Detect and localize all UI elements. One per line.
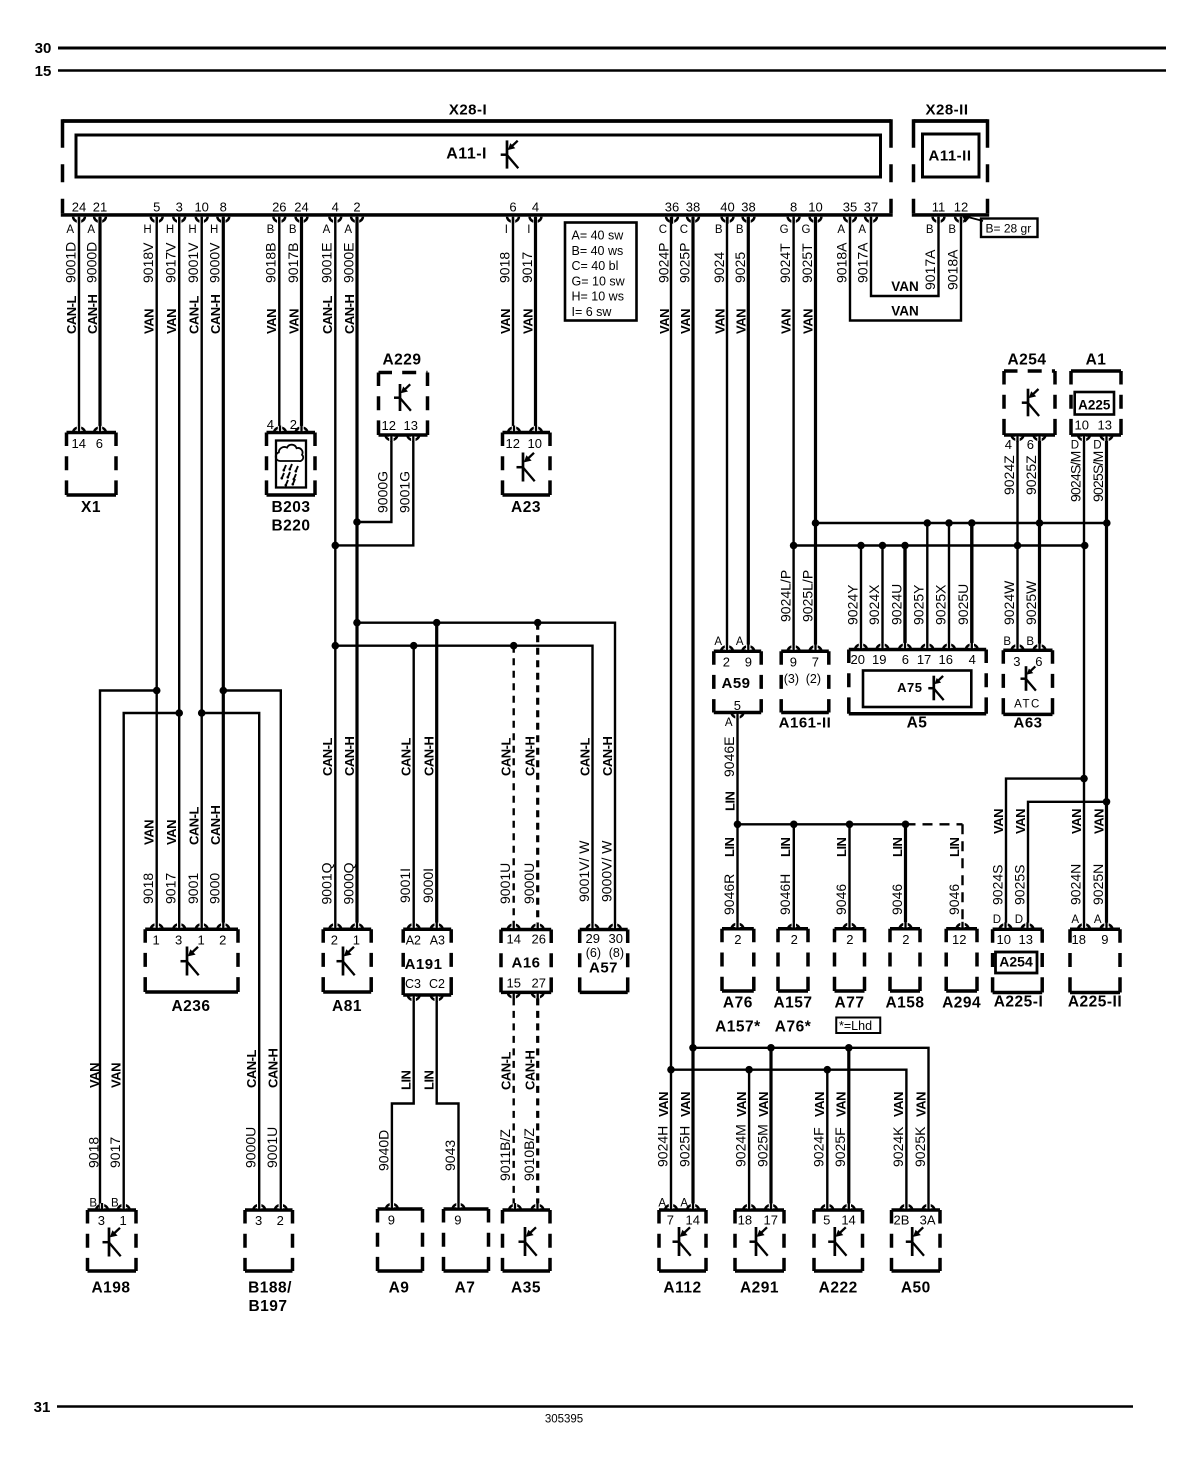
junction lower bus x=905 — [901, 542, 909, 550]
terminal 30 line — [58, 47, 1166, 50]
node VAN bus upper — [693, 1048, 929, 1210]
svg-text:A75: A75 — [897, 680, 922, 695]
svg-text:7: 7 — [812, 655, 819, 670]
module A229 icon — [399, 384, 402, 411]
node bus lower (9024 group) — [794, 544, 1085, 546]
svg-text:40: 40 — [720, 200, 734, 215]
svg-text:9017B: 9017B — [285, 243, 301, 283]
svg-text:14: 14 — [686, 1213, 700, 1228]
module A57 pin 29 — [587, 925, 599, 930]
wire 9024S branch (to A225-I:10) — [1006, 779, 1084, 930]
svg-text:9043: 9043 — [442, 1140, 458, 1171]
svg-text:9017V: 9017V — [163, 242, 179, 283]
module A254 box — [1004, 369, 1055, 373]
svg-text:B: B — [1003, 636, 1011, 648]
svg-text:9018: 9018 — [140, 873, 156, 904]
module A5 pin 17 — [921, 645, 933, 650]
svg-text:6: 6 — [96, 436, 103, 451]
svg-text:9024W: 9024W — [1001, 580, 1017, 625]
svg-text:VAN: VAN — [656, 1092, 671, 1117]
svg-text:CAN-L: CAN-L — [187, 807, 202, 845]
svg-text:4: 4 — [1005, 437, 1012, 452]
wire 9000U branch (to B188:3) — [202, 713, 260, 1210]
svg-text:CAN-L: CAN-L — [320, 738, 335, 776]
svg-text:305395: 305395 — [545, 1414, 583, 1426]
svg-text:9017: 9017 — [163, 873, 179, 904]
wire 9001I (CAN-L bus to A191:A2) — [413, 646, 415, 930]
svg-text:VAN: VAN — [891, 304, 919, 319]
svg-text:A: A — [66, 224, 74, 236]
svg-text:A: A — [725, 717, 733, 729]
svg-text:B: B — [289, 224, 297, 236]
svg-text:A59: A59 — [721, 675, 750, 692]
svg-text:9024H: 9024H — [654, 1126, 670, 1167]
svg-text:9046E: 9046E — [721, 737, 737, 777]
svg-text:9046R: 9046R — [721, 874, 737, 915]
svg-text:CAN-H: CAN-H — [85, 295, 100, 334]
svg-text:VAN: VAN — [264, 309, 279, 334]
node LIN bus solid — [738, 823, 906, 825]
junction VAN upper x=693 — [689, 1044, 697, 1052]
svg-text:D: D — [1093, 440, 1101, 452]
svg-text:A: A — [1094, 914, 1102, 926]
wire 9025Z (A254:6 down) — [1038, 441, 1041, 523]
module A236 pin 2 — [217, 924, 229, 929]
wire 9011B/Z (A16:15 to A35, dashed) — [513, 998, 515, 1210]
svg-text:A5: A5 — [907, 715, 928, 732]
junction on 9017V — [175, 709, 183, 717]
module A236 pin 1 — [196, 924, 208, 929]
svg-text:A: A — [736, 636, 744, 648]
wire 9025X (upper bus to A5) — [948, 523, 950, 650]
op-amp U A11-I icon — [506, 140, 509, 168]
svg-text:A157: A157 — [773, 995, 812, 1012]
svg-text:LIN: LIN — [778, 837, 793, 857]
module A5 pin 20 — [855, 644, 867, 649]
svg-text:A9: A9 — [389, 1280, 410, 1297]
junction upper bus x=949 — [945, 519, 953, 527]
svg-text:16: 16 — [939, 652, 953, 667]
svg-text:B220: B220 — [271, 518, 310, 535]
svg-text:24: 24 — [72, 200, 86, 215]
svg-text:17: 17 — [764, 1213, 778, 1228]
sensor B203 rain icon — [276, 445, 304, 461]
module A81 pin 1 — [351, 924, 363, 929]
svg-text:CAN-L: CAN-L — [499, 1052, 514, 1090]
svg-text:36: 36 — [665, 200, 679, 215]
wire 9017B (X28-I:24 to B203:2) — [300, 217, 303, 433]
svg-text:9017A: 9017A — [854, 242, 870, 283]
junction lower bus x=1017.5 — [1014, 542, 1022, 550]
wire 9017A (X28-I:37 to X28-II:11) — [871, 217, 939, 296]
svg-text:VAN: VAN — [812, 1092, 827, 1117]
junction lower bus x=861 — [857, 542, 865, 550]
svg-text:A76*: A76* — [775, 1019, 812, 1036]
svg-text:A3: A3 — [430, 934, 445, 948]
junction VAN upper x=771 — [767, 1044, 775, 1052]
junction 9000G/9000E — [353, 518, 361, 526]
svg-text:C3: C3 — [405, 977, 421, 991]
svg-text:A: A — [858, 224, 866, 236]
module A291 box — [735, 1208, 784, 1212]
module A112 box — [659, 1208, 706, 1212]
svg-text:8: 8 — [220, 200, 227, 215]
wire 9000U (CAN-H bus to A16:26, dashed) — [536, 623, 539, 930]
module A198 icon — [108, 1228, 111, 1257]
svg-text:9000E: 9000E — [340, 243, 356, 283]
module A75 inner box — [863, 671, 971, 708]
svg-text:24: 24 — [294, 200, 308, 215]
module A9 box — [378, 1207, 423, 1211]
junction upper bus x=815.5 — [812, 519, 820, 527]
svg-text:VAN: VAN — [913, 1092, 928, 1117]
wire 9000D (X28-I:21 to X1:6) — [98, 217, 101, 433]
svg-text:3: 3 — [255, 1213, 262, 1228]
svg-text:LIN: LIN — [422, 1070, 437, 1090]
svg-text:VAN: VAN — [756, 1092, 771, 1117]
svg-text:8: 8 — [790, 200, 797, 215]
node bus upper (9025 group) — [816, 522, 1107, 524]
wire 9024S/M (A1:10 down) — [1083, 441, 1085, 546]
svg-text:CAN-L: CAN-L — [399, 738, 414, 776]
module A35 icon — [524, 1227, 527, 1256]
module A157 box — [778, 927, 808, 931]
svg-text:11: 11 — [932, 200, 946, 215]
wire 9018 (X28-I:6 to A23:12) — [512, 217, 514, 433]
svg-text:H: H — [210, 224, 218, 236]
module A236 box — [145, 927, 238, 931]
svg-text:30: 30 — [35, 40, 52, 57]
svg-text:10: 10 — [1075, 418, 1089, 433]
svg-text:5: 5 — [734, 698, 741, 713]
junction LIN x=737.5 — [734, 821, 742, 829]
module A59 box — [714, 649, 761, 653]
svg-text:6: 6 — [1035, 654, 1042, 669]
wire 9017V (X28-I:3 to A236:3) — [178, 217, 180, 929]
svg-text:A222: A222 — [819, 1280, 858, 1297]
svg-text:9046: 9046 — [889, 884, 905, 915]
svg-text:A291: A291 — [740, 1280, 779, 1297]
svg-text:VAN: VAN — [164, 820, 179, 845]
wire 9001V (X28-I:10 to A236:1) — [200, 217, 202, 929]
svg-text:9025F: 9025F — [832, 1127, 848, 1167]
svg-text:9024T: 9024T — [777, 243, 793, 283]
svg-text:2: 2 — [734, 932, 741, 947]
svg-text:2: 2 — [331, 933, 338, 948]
module A191 pin A2 — [408, 924, 420, 929]
wire 9046E (A59:5 to LIN bus) — [736, 719, 738, 825]
svg-text:A294: A294 — [942, 995, 981, 1012]
svg-text:VAN: VAN — [142, 820, 157, 845]
wire 9043 (A191:C2 to A7:9) — [437, 1001, 459, 1209]
svg-text:9010B/Z: 9010B/Z — [521, 1128, 537, 1181]
svg-text:A16: A16 — [511, 955, 540, 972]
svg-text:3A: 3A — [920, 1213, 936, 1228]
junction on 9001V — [198, 709, 206, 717]
svg-text:LIN: LIN — [947, 837, 962, 857]
wire 9025S/M (A1:13 down) — [1105, 441, 1108, 523]
svg-text:G: G — [802, 224, 811, 236]
wire 9001U branch (to B188:2) — [223, 691, 280, 1211]
svg-text:VAN: VAN — [778, 309, 793, 334]
svg-text:9001V/ W: 9001V/ W — [576, 840, 592, 902]
svg-text:12: 12 — [382, 418, 396, 433]
wire 9024T (X28-I:8 to A161-II:9) — [792, 217, 794, 651]
module A5 pin 16 — [943, 644, 955, 649]
svg-text:9001I: 9001I — [397, 868, 413, 903]
svg-text:1: 1 — [197, 933, 204, 948]
svg-text:CAN-H: CAN-H — [342, 737, 357, 776]
terminal 15 line — [58, 69, 1166, 72]
module A57 box — [580, 928, 628, 932]
wire 9024W (lower bus to A63:3) — [1016, 546, 1018, 651]
svg-text:A198: A198 — [91, 1280, 130, 1297]
legend wire-code box — [565, 223, 637, 321]
svg-text:(3): (3) — [784, 672, 799, 686]
wire 9001U (CAN-L bus to A16:14, dashed) — [513, 646, 515, 930]
svg-text:10: 10 — [528, 436, 542, 451]
connector X28-I outline — [63, 119, 892, 123]
svg-text:9001D: 9001D — [62, 242, 78, 283]
connector X28-I pin bar — [61, 213, 893, 217]
svg-text:9046: 9046 — [833, 884, 849, 915]
svg-text:A254: A254 — [1007, 352, 1046, 369]
svg-text:2: 2 — [277, 1213, 284, 1228]
svg-text:B: B — [948, 224, 956, 236]
svg-text:VAN: VAN — [520, 309, 535, 334]
svg-text:A= 40 sw: A= 40 sw — [572, 229, 625, 243]
wire 9018 branch (to A198:3) — [100, 691, 157, 1211]
wire 9025F (VAN upper to A222:14) — [847, 1048, 850, 1210]
wire 9025M (VAN upper to A291:17) — [769, 1048, 772, 1210]
svg-text:9: 9 — [1101, 932, 1108, 947]
wire 9018B (X28-I:26 to B203:4) — [278, 217, 280, 433]
svg-text:6: 6 — [1027, 437, 1034, 452]
module A161-II pin 9 — [788, 646, 800, 651]
svg-text:9024Z: 9024Z — [1001, 455, 1017, 495]
svg-text:9025S/M: 9025S/M — [1090, 451, 1106, 502]
svg-text:9017A: 9017A — [922, 249, 938, 290]
svg-text:9025X: 9025X — [932, 584, 948, 625]
wire 9046 (LIN to A294:12, dashed) — [961, 824, 963, 929]
svg-text:37: 37 — [864, 200, 878, 215]
module A198 pin 1 — [118, 1205, 130, 1210]
svg-text:CAN-L: CAN-L — [64, 296, 79, 334]
module A16 box — [501, 928, 551, 932]
svg-text:C2: C2 — [429, 977, 445, 991]
svg-text:(6): (6) — [586, 946, 601, 960]
wire 9024P (X28-I:36 to A112:7) — [670, 217, 672, 1070]
svg-text:9: 9 — [745, 655, 752, 670]
svg-text:14: 14 — [507, 932, 521, 947]
svg-text:2B: 2B — [893, 1213, 909, 1228]
module A35 pin a — [509, 1205, 521, 1210]
svg-text:A35: A35 — [511, 1280, 541, 1297]
svg-text:A236: A236 — [171, 998, 210, 1015]
svg-text:CAN-H: CAN-H — [422, 737, 437, 776]
wire 9024M (VAN lower to A291:18) — [748, 1070, 750, 1210]
svg-text:4: 4 — [267, 417, 274, 432]
svg-text:12: 12 — [954, 200, 968, 215]
svg-text:9: 9 — [454, 1213, 461, 1228]
svg-text:LIN: LIN — [722, 791, 737, 811]
svg-text:5: 5 — [823, 1213, 830, 1228]
svg-text:9025Z: 9025Z — [1023, 455, 1039, 495]
module A23 icon — [522, 453, 525, 482]
svg-text:9: 9 — [790, 655, 797, 670]
svg-text:G: G — [780, 224, 789, 236]
svg-text:4: 4 — [532, 200, 539, 215]
module B188 pin 3 — [253, 1205, 265, 1210]
junction lower bus x=1084.7 — [1081, 542, 1089, 550]
svg-text:A50: A50 — [901, 1280, 931, 1297]
svg-text:(8): (8) — [609, 946, 624, 960]
module A35 box — [503, 1208, 551, 1212]
svg-text:9018A: 9018A — [944, 249, 960, 290]
module A225-II box — [1070, 928, 1120, 932]
wire 9000V (X28-I:8 to A236:2) — [222, 217, 225, 929]
module A161-II box — [781, 649, 829, 653]
svg-text:15: 15 — [35, 63, 52, 80]
svg-text:2: 2 — [846, 932, 853, 947]
svg-text:35: 35 — [843, 200, 857, 215]
module A225-I box — [993, 928, 1043, 932]
svg-text:VAN: VAN — [1069, 809, 1084, 834]
svg-text:VAN: VAN — [1091, 809, 1106, 834]
wire 9010B/Z (A16:27 to A35, dashed) — [536, 998, 539, 1210]
svg-text:CAN-H: CAN-H — [208, 295, 223, 334]
junction 9001G/9001E — [332, 542, 340, 550]
svg-text:A2: A2 — [406, 934, 421, 948]
svg-text:A: A — [1071, 914, 1079, 926]
svg-text:30: 30 — [609, 931, 623, 946]
svg-text:VAN: VAN — [142, 309, 157, 334]
svg-text:6: 6 — [902, 652, 909, 667]
wire 9024Z (A254:4 down) — [1016, 441, 1018, 546]
junction VAN upper x=848.8 — [845, 1044, 853, 1052]
svg-text:H: H — [166, 224, 174, 236]
svg-text:9025N: 9025N — [1090, 864, 1106, 905]
junction lower bus x=793.6 — [790, 542, 798, 550]
svg-text:6: 6 — [509, 200, 516, 215]
svg-text:9000G: 9000G — [375, 471, 391, 513]
svg-text:A254: A254 — [999, 954, 1033, 970]
sensor B203 inner box — [276, 441, 306, 488]
wire 9046H (LIN to A157:2) — [793, 824, 795, 929]
svg-text:A112: A112 — [663, 1280, 701, 1297]
svg-text:(2): (2) — [806, 672, 821, 686]
junction LIN x=849.5 — [846, 821, 854, 829]
svg-text:2: 2 — [791, 932, 798, 947]
svg-text:B188/: B188/ — [248, 1280, 292, 1297]
svg-text:5: 5 — [153, 200, 160, 215]
junction upper bus x=927.3 — [924, 519, 932, 527]
wire 9024U (lower bus to A5) — [903, 546, 906, 650]
svg-text:A: A — [323, 224, 331, 236]
svg-text:VAN: VAN — [891, 279, 919, 294]
svg-text:VAN: VAN — [657, 309, 672, 334]
module A23 pin 12 — [508, 427, 520, 432]
svg-text:29: 29 — [586, 931, 600, 946]
svg-text:I= 6 sw: I= 6 sw — [572, 305, 613, 319]
svg-text:1: 1 — [353, 933, 360, 948]
svg-text:9000U: 9000U — [521, 863, 537, 904]
module A77 box — [835, 927, 865, 931]
junction VAN lower x=827.3 — [824, 1066, 832, 1074]
module A225-II pin 18 — [1078, 924, 1090, 929]
junction CAN-L at 9001I — [410, 642, 418, 650]
svg-text:19: 19 — [872, 652, 886, 667]
svg-text:9001Q: 9001Q — [319, 862, 335, 904]
wire 9025W (upper bus to A63:6) — [1038, 523, 1041, 650]
svg-text:G= 10 sw: G= 10 sw — [572, 274, 626, 288]
junction upper bus x=1039.5 — [1036, 519, 1044, 527]
wire 9001G (A229:13 to node 9001E) — [335, 441, 413, 545]
svg-text:9025P: 9025P — [676, 243, 692, 283]
svg-text:LIN: LIN — [399, 1070, 414, 1090]
module A81 pin 2 — [329, 924, 341, 929]
svg-text:CAN-L: CAN-L — [577, 738, 592, 776]
svg-text:3: 3 — [176, 200, 183, 215]
svg-text:31: 31 — [34, 1399, 51, 1416]
module A23 pin 10 — [530, 428, 542, 433]
wire 9018A (X28-I:35 to X28-II:12) — [850, 217, 961, 321]
svg-text:CAN-H: CAN-H — [266, 1049, 281, 1088]
svg-text:3: 3 — [1013, 654, 1020, 669]
svg-text:13: 13 — [1019, 932, 1033, 947]
junction CAN-L at 9001E — [332, 642, 340, 650]
svg-text:9000I: 9000I — [420, 868, 436, 903]
svg-text:7: 7 — [667, 1213, 674, 1228]
module A1 box — [1071, 369, 1121, 373]
module A254 inner box — [996, 952, 1038, 973]
module A76 box — [722, 927, 754, 931]
svg-text:9025W: 9025W — [1023, 580, 1039, 625]
svg-text:9001V: 9001V — [185, 242, 201, 283]
svg-text:4: 4 — [332, 200, 339, 215]
svg-text:A23: A23 — [511, 499, 541, 516]
svg-text:CAN-L: CAN-L — [244, 1050, 259, 1088]
svg-text:A77: A77 — [835, 995, 865, 1012]
module A50 box — [892, 1208, 941, 1212]
svg-text:9000Q: 9000Q — [340, 862, 356, 904]
junction on 9018V — [153, 687, 161, 695]
svg-text:9000: 9000 — [207, 873, 223, 904]
svg-text:2: 2 — [353, 200, 360, 215]
svg-text:I: I — [527, 224, 530, 236]
svg-text:20: 20 — [851, 652, 865, 667]
svg-text:CAN-H: CAN-H — [342, 295, 357, 334]
svg-text:A81: A81 — [332, 998, 362, 1015]
svg-text:A11-II: A11-II — [928, 148, 971, 165]
svg-text:18: 18 — [738, 1213, 752, 1228]
svg-text:17: 17 — [917, 652, 931, 667]
wire 9024F (VAN lower to A222:5) — [826, 1070, 828, 1210]
module A57 pin 30 — [609, 925, 621, 930]
connector X1 pin 6 — [94, 428, 106, 433]
svg-text:CAN-L: CAN-L — [187, 296, 202, 334]
svg-text:9018V: 9018V — [140, 242, 156, 283]
svg-text:VAN: VAN — [733, 309, 748, 334]
module A81 box — [323, 927, 371, 931]
svg-text:26: 26 — [272, 200, 286, 215]
svg-text:3: 3 — [98, 1213, 105, 1228]
junction VAN lower x=671 — [667, 1066, 675, 1074]
svg-text:9018: 9018 — [496, 252, 512, 283]
svg-text:*=Lhd: *=Lhd — [839, 1019, 872, 1033]
module A11-II box — [923, 134, 980, 177]
svg-text:A76: A76 — [723, 995, 753, 1012]
